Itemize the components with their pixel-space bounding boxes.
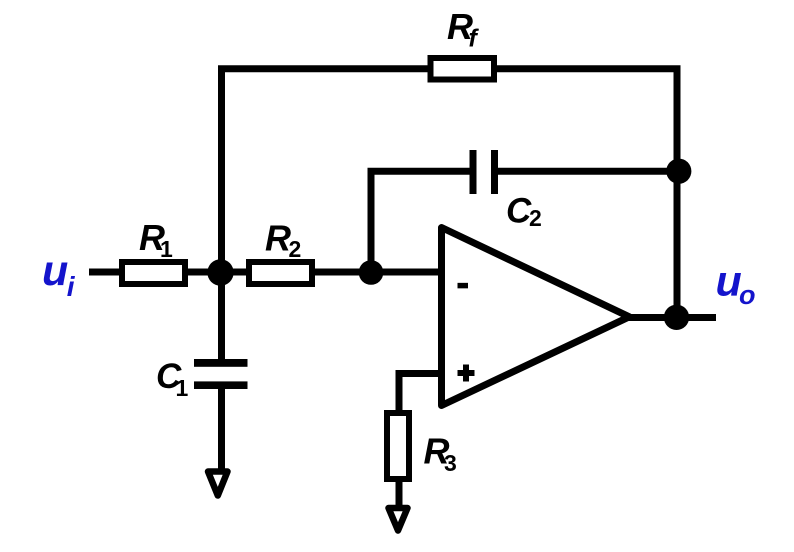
svg-text:f: f (469, 25, 480, 53)
svg-text:2: 2 (529, 205, 542, 231)
svg-text:1: 1 (176, 375, 189, 401)
svg-text:i: i (67, 271, 76, 302)
svg-text:u: u (716, 258, 742, 306)
svg-text:2: 2 (289, 236, 302, 262)
svg-text:3: 3 (444, 450, 457, 476)
svg-text:o: o (739, 280, 756, 310)
svg-text:R: R (265, 218, 291, 259)
svg-text:u: u (42, 247, 68, 295)
svg-text:1: 1 (160, 236, 173, 262)
